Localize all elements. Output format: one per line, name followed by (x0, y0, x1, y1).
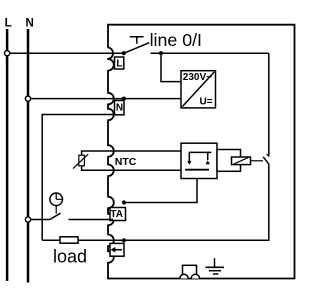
terminal TA box (110, 208, 126, 221)
controller down arrow (188, 152, 190, 161)
wire N node to power supply (31, 98, 181, 100)
wire contact to output (124, 164, 269, 240)
svg-text:L: L (116, 58, 122, 69)
device enclosure box (108, 25, 295, 279)
relay coil box (232, 157, 251, 165)
wire L node to terminal L (10, 52, 124, 54)
wire output to load (42, 239, 60, 241)
node circle on L (5, 51, 10, 56)
terminal output box (110, 243, 124, 256)
svg-text:N: N (26, 17, 34, 29)
svg-text:load: load (53, 247, 87, 267)
controller base bar (185, 169, 209, 171)
wire load return to terminal N (42, 115, 115, 241)
junction dot at terminal L (122, 51, 126, 55)
wire contact feed vertical (268, 53, 270, 156)
junction dot at output terminal (122, 238, 126, 242)
switch blade main (124, 43, 150, 54)
junction dot top wire (159, 51, 163, 55)
relay contact blade (263, 157, 269, 164)
relay coil diagonal (234, 157, 249, 164)
contact fixed tick (267, 154, 269, 156)
svg-text:N: N (116, 103, 123, 114)
controller top bar (189, 151, 212, 153)
terminal output arrow (115, 249, 122, 251)
junction dot at terminal N (122, 97, 126, 101)
clock switch blade (50, 213, 61, 219)
wire load to output terminal (78, 239, 124, 241)
junction dot at terminal TA (122, 200, 126, 204)
clock stem (55, 206, 57, 214)
node circle clock switch (25, 217, 30, 222)
wire L mains vertical (6, 29, 9, 281)
terminal L box (115, 57, 124, 69)
controller box U2 (181, 143, 217, 178)
svg-text:line 0/I: line 0/I (150, 30, 202, 50)
wire N mains vertical (27, 29, 30, 283)
wire clock switch to terminal TA (69, 219, 114, 221)
thermistor body (79, 155, 85, 166)
thermistor diagonal (73, 154, 88, 168)
relay actuator link (251, 160, 264, 162)
switch actuator T symbol (130, 37, 144, 44)
wire top internal (151, 52, 269, 54)
wire TA to controller (124, 179, 197, 203)
ground symbol (214, 258, 216, 267)
wire branch to power supply (161, 53, 181, 81)
svg-text:TA: TA (110, 209, 123, 220)
mains entry block (183, 265, 197, 278)
relay housing box (217, 150, 241, 172)
power supply box U1 (181, 71, 216, 108)
svg-text:L: L (5, 17, 12, 29)
thermistor NTC (82, 151, 181, 170)
controller up arrow (207, 152, 209, 160)
terminal N box (115, 101, 125, 115)
node circle on N (25, 96, 30, 101)
wire node to clock switch (31, 219, 50, 221)
svg-text:U=: U= (200, 97, 213, 108)
mains entry bumps (180, 274, 200, 278)
clock symbol (50, 193, 63, 206)
power supply diagonal (182, 72, 214, 107)
svg-text:230V~: 230V~ (183, 72, 212, 83)
svg-text:NTC: NTC (115, 156, 137, 168)
load resistor (60, 237, 78, 243)
